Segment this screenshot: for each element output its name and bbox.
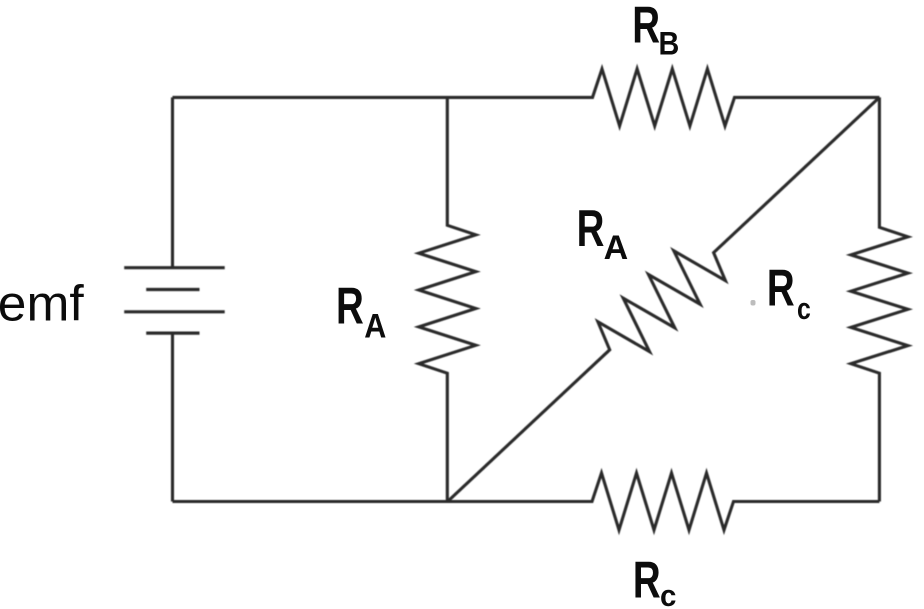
label Rc bottom: R bbox=[633, 551, 661, 609]
wire: bottom rail through resistor Rc to bottom-right corner bbox=[173, 473, 880, 530]
label RA diag: sub A bbox=[604, 229, 629, 267]
svg-text:c: c bbox=[660, 579, 676, 609]
battery emf: plate 2 (short) bbox=[146, 288, 199, 291]
svg-text:emf: emf bbox=[0, 275, 85, 331]
wire: right rail through resistor Rc (vertical) bbox=[851, 97, 908, 501]
svg-text:R: R bbox=[633, 551, 661, 609]
svg-text:c: c bbox=[797, 292, 811, 326]
svg-text:A: A bbox=[604, 229, 629, 267]
svg-text:R: R bbox=[632, 0, 660, 54]
label RB: sub B bbox=[659, 26, 680, 62]
label RB: R bbox=[632, 0, 660, 54]
stray mark (faint speck) bbox=[751, 300, 756, 306]
wire: middle branch through resistor RA (vertical) bbox=[419, 97, 476, 501]
label RA diag: R bbox=[577, 200, 605, 258]
label RA mid: R bbox=[336, 277, 364, 335]
label Rc right: R bbox=[767, 259, 795, 317]
label RA mid: sub A bbox=[364, 307, 386, 345]
svg-text:B: B bbox=[659, 26, 680, 62]
svg-text:R: R bbox=[336, 277, 364, 335]
battery emf: plate 1 (long, top) bbox=[124, 266, 225, 269]
label Rc bottom: sub c bbox=[660, 579, 676, 609]
svg-text:A: A bbox=[364, 307, 386, 345]
label emf bbox=[0, 275, 85, 331]
svg-text:R: R bbox=[767, 259, 795, 317]
battery emf: plate 4 (short, bottom) bbox=[146, 332, 199, 335]
wire: diagonal branch through resistor RA to top-right corner bbox=[448, 97, 880, 501]
label Rc right: sub c bbox=[797, 292, 811, 326]
wire: top rail from top-left corner through resistor RB to top-right corner bbox=[173, 69, 880, 126]
svg-text:R: R bbox=[577, 200, 605, 258]
wire: left rail from battery - plate to bottom-left corner bbox=[171, 333, 174, 501]
wire: left rail down to battery + plate bbox=[171, 97, 174, 267]
battery emf: plate 3 (long) bbox=[124, 310, 225, 313]
